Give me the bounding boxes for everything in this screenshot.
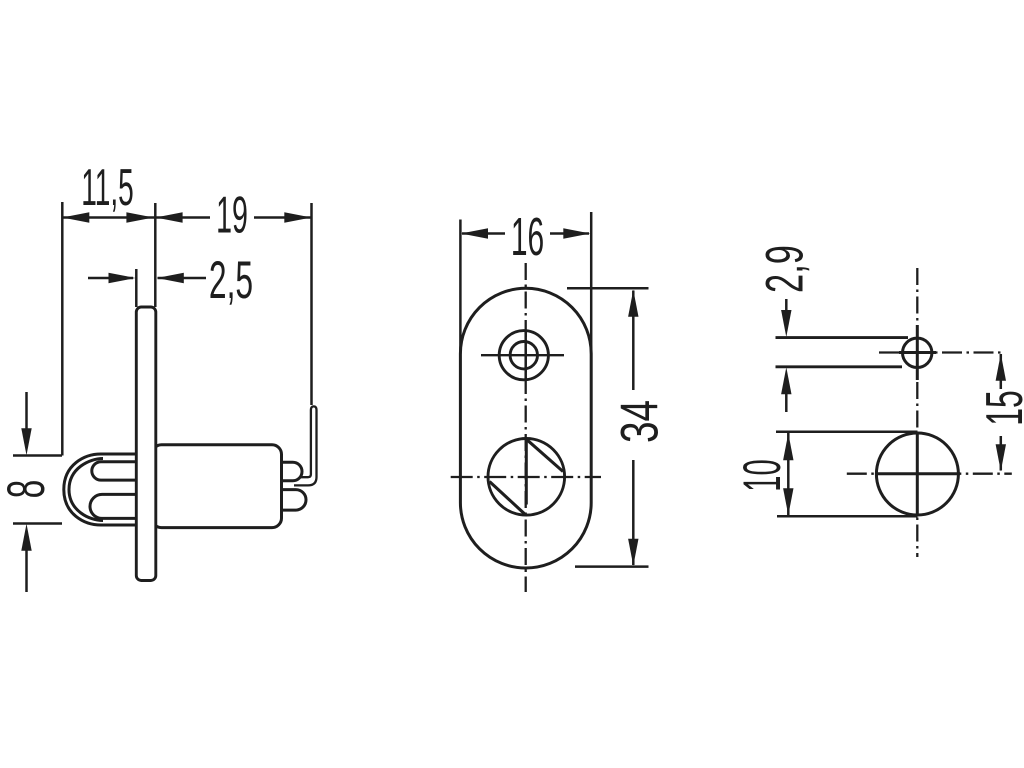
vertical centerline (dash-dot) — [916, 268, 918, 557]
vertical centerline of plate (dash-dot) — [525, 263, 527, 592]
chord flat upper-right — [527, 440, 563, 472]
chord flat lower-left — [490, 482, 525, 514]
slot strip bottom edge — [776, 365, 903, 368]
dimension line 16 (y=233.5) — [462, 232, 589, 235]
arrowhead right tip of 19 — [284, 212, 311, 222]
extension line x=136 (flange left face) — [135, 269, 138, 307]
small hole horizontal centerline — [481, 354, 564, 356]
lower terminal tab — [268, 490, 306, 511]
svg-text:16: 16 — [511, 208, 544, 267]
ext line top y=455.5 — [13, 454, 62, 457]
ext line bottom y=523.5 — [13, 522, 62, 525]
dimension 2,9 — [785, 299, 788, 311]
arrowhead up tip of 34 — [628, 290, 638, 317]
rubber boot / button outer contour — [64, 454, 137, 525]
terminal blade (L-shaped, bent up) — [294, 406, 317, 485]
small hole v solid — [916, 325, 919, 380]
big hole v solid — [916, 433, 919, 516]
arrowhead right tip of 11,5 — [126, 212, 153, 222]
bottom extension line y=566.6 — [575, 565, 649, 568]
arrowhead down tip of 34 — [628, 539, 638, 566]
svg-text:10: 10 — [733, 459, 792, 491]
lower slot of button — [90, 494, 137, 518]
bottom extension line y=516.2 — [777, 515, 918, 518]
svg-text:2,9: 2,9 — [756, 245, 814, 293]
vertical solid bar in plunger hole — [525, 440, 528, 505]
svg-text:19: 19 — [216, 185, 248, 243]
dimension line 11,5 / 19 (y=217.5) — [64, 216, 311, 219]
svg-text:11,5: 11,5 — [81, 158, 134, 216]
small hole h-centerline (dash-dot to 15 dim) — [879, 351, 1001, 353]
right outside arrow of 2,5 — [158, 277, 207, 280]
svg-text:8: 8 — [0, 480, 56, 499]
dim line x=1000.8 — [1000, 354, 1003, 471]
extension line x=591 — [590, 212, 593, 354]
dim line x=633.3 — [632, 291, 635, 566]
small hole crossbar — [899, 351, 936, 354]
oval plate outline (stadium) — [460, 288, 591, 568]
upper slot of button — [92, 462, 137, 480]
svg-text:34: 34 — [610, 400, 669, 443]
switch body — [152, 445, 282, 528]
extension line x=312 (terminal right) — [310, 203, 313, 405]
left outside arrow of 2,5 — [88, 277, 133, 280]
extension line x=62 (button tip) — [61, 202, 64, 456]
big hole horizontal centerline (dash-dot) — [451, 476, 601, 478]
dim line x=788.3 — [787, 433, 790, 515]
upper terminal tab — [268, 462, 302, 481]
arrowhead right tip of 16 — [563, 228, 590, 238]
small hole circle 2,9 — [903, 338, 932, 367]
extension line x=155 (flange right face) — [154, 203, 157, 307]
flange plate — [136, 307, 156, 581]
svg-text:15: 15 — [976, 390, 1024, 426]
extension line x=460 — [459, 220, 462, 355]
top extension line y=288.3 — [567, 287, 649, 290]
big hole circle 10 — [876, 433, 958, 515]
bottom arrow line of 8 — [25, 550, 28, 592]
small hole vertical solid segment — [524, 331, 527, 380]
screw hole inner circle — [510, 342, 537, 369]
big hole h-centerline — [847, 473, 1012, 475]
arrowhead left tip of 19 — [156, 212, 183, 222]
arrowhead left tip of 11,5 — [62, 212, 89, 222]
top arrow line of 8 — [25, 392, 28, 429]
big hole crossbar — [875, 472, 960, 475]
svg-text:2,5: 2,5 — [209, 251, 253, 310]
screw hole outer circle — [499, 331, 548, 380]
boot inner arc — [69, 459, 103, 521]
plunger hole circle — [488, 439, 565, 516]
slot strip top edge — [776, 336, 909, 339]
arrowhead left tip of 16 — [461, 228, 488, 238]
top extension line y=431.8 — [776, 431, 918, 434]
